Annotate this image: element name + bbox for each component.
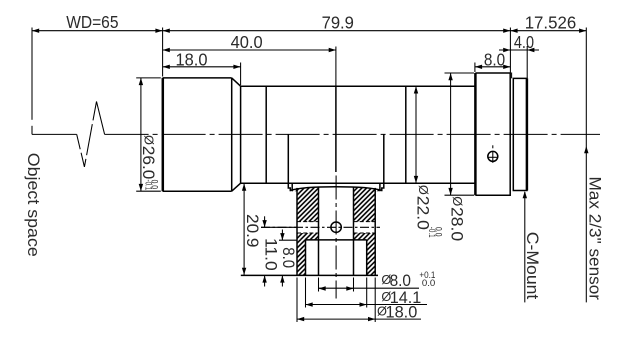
svg-text:40.0: 40.0 <box>231 32 263 52</box>
svg-text:WD=65: WD=65 <box>66 12 118 32</box>
arrow 79.9 left <box>163 29 170 33</box>
svg-text:26.0: 26.0 <box>139 146 158 180</box>
svg-text:C-Mount: C-Mount <box>523 232 542 300</box>
svg-text:Object space: Object space <box>24 153 43 257</box>
clamp vertical centerline <box>335 176 337 299</box>
ext for 8.0 <box>279 239 297 241</box>
dimension line row3 18.0 <box>163 66 241 68</box>
clamp outer wall left <box>296 188 298 276</box>
c-mount ring right edge thick <box>526 78 529 190</box>
svg-text:20.9: 20.9 <box>243 214 262 247</box>
clamp right ear inner <box>379 183 381 191</box>
barrel phi26 bottom edge <box>163 190 232 192</box>
clamp left ear <box>288 135 290 192</box>
svg-text:Ø: Ø <box>141 135 156 145</box>
pocket shoulder <box>306 239 367 241</box>
barrel phi26 top edge <box>163 77 232 79</box>
arrow 17.526 left <box>510 29 517 33</box>
wire extension WD left <box>31 28 33 120</box>
svg-text:-0.1: -0.1 <box>143 180 153 191</box>
dim phi28 <box>450 73 452 195</box>
extension lines top <box>162 28 164 77</box>
pocket wall right <box>366 240 368 276</box>
clamp bottom edge <box>241 274 378 276</box>
dimension line 4.0 <box>499 49 539 51</box>
dim 8.0 left <box>281 230 283 241</box>
hatch low right <box>367 240 376 276</box>
dimension line 8.0 top <box>475 66 511 68</box>
hatch upper left <box>292 187 318 222</box>
svg-text:4.0: 4.0 <box>514 32 534 52</box>
cross hole bottom edge <box>297 232 319 234</box>
dim 11.0 <box>264 216 266 227</box>
clamp left ear inner <box>291 183 293 191</box>
svg-text:28.0: 28.0 <box>447 207 466 241</box>
dim phi22 <box>415 86 417 183</box>
c-mount leader <box>524 192 526 302</box>
chamfer bottom <box>232 183 241 191</box>
cross hole top edge <box>297 221 319 223</box>
svg-text:Max 2/3" sensor: Max 2/3" sensor <box>585 177 604 301</box>
dim 20.9 <box>243 184 245 275</box>
ring phi28 left edge <box>474 73 477 195</box>
joint line 3 <box>405 86 407 183</box>
extension lines below clamp <box>318 278 320 292</box>
dim phi26 <box>140 78 142 191</box>
hatch mid left <box>297 233 319 240</box>
dim phi18.0 <box>297 318 421 320</box>
set screw symbol <box>488 151 498 161</box>
arrow 17.526 right <box>579 29 586 33</box>
object space line <box>32 133 77 135</box>
pocket wall left <box>305 240 307 276</box>
clamp flange top wavy edge <box>290 187 381 191</box>
svg-text:0.0: 0.0 <box>422 278 435 289</box>
svg-text:79.9: 79.9 <box>322 13 354 33</box>
clamp outer wall right <box>374 188 376 276</box>
step edge <box>240 86 242 183</box>
svg-text:17.526: 17.526 <box>525 12 577 32</box>
arrow WD left <box>32 29 39 33</box>
hatch mid right <box>354 233 376 240</box>
ring phi28 outline <box>475 73 510 195</box>
centerline optical axis <box>105 133 600 135</box>
c-mount ring <box>513 78 527 190</box>
barrel phi26 end face <box>231 78 233 191</box>
joint line 1 <box>265 86 267 183</box>
barrel phi22 bottom edge <box>241 182 475 184</box>
chamfer top <box>232 78 241 86</box>
svg-text:Ø: Ø <box>450 196 465 206</box>
bore wall right <box>353 187 355 275</box>
joint line 2 <box>335 86 337 172</box>
svg-text:11.0: 11.0 <box>262 238 281 271</box>
hatch low left <box>297 240 306 276</box>
lens front face <box>162 78 165 191</box>
dimension line row1 <box>32 30 586 32</box>
barrel phi22 top edge <box>241 85 475 87</box>
hatch upper right <box>354 187 380 222</box>
dim phi14.1 <box>306 304 428 306</box>
cross hole circle <box>331 222 341 232</box>
svg-text:Ø: Ø <box>416 185 431 195</box>
cross hole centerline <box>261 226 380 228</box>
clamp right ear <box>382 135 384 192</box>
arrow 79.9 right <box>503 29 510 33</box>
svg-text:18.0: 18.0 <box>176 50 208 70</box>
svg-text:8.0: 8.0 <box>484 50 505 70</box>
bore wall left <box>318 187 320 275</box>
break symbol zigzag <box>77 102 105 167</box>
svg-text:-0.1: -0.1 <box>427 227 437 238</box>
svg-text:18.0: 18.0 <box>386 302 418 321</box>
dim phi8 bottom <box>319 287 420 289</box>
sensor plane line <box>585 28 587 303</box>
dimension line row2 40.0 <box>163 49 336 51</box>
ext for 11.0 <box>261 226 297 228</box>
svg-text:22.0: 22.0 <box>413 196 432 230</box>
svg-text:8.0: 8.0 <box>279 247 298 268</box>
arrow WD right <box>155 29 162 33</box>
